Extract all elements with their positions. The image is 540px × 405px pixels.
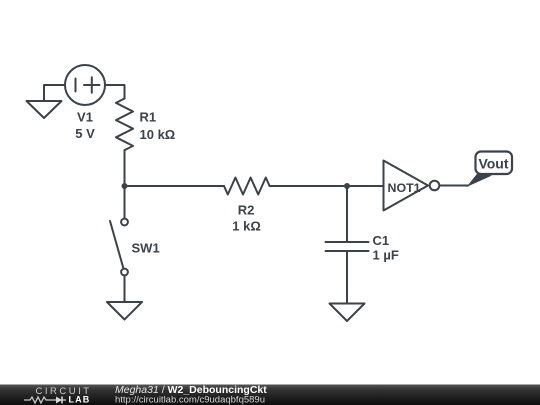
svg-text:R2: R2 xyxy=(238,203,255,218)
switch SW1 xyxy=(110,219,128,276)
wire (R2 right to node B) xyxy=(270,185,347,187)
Vout flag body xyxy=(476,152,513,175)
NOT1 output bubble xyxy=(430,181,440,191)
wire (C1 bottom plate to ground) xyxy=(346,251,348,304)
wire (V1 plus terminal to R1 top) xyxy=(105,85,125,99)
svg-text:NOT1: NOT1 xyxy=(388,181,421,195)
svg-text:Vout: Vout xyxy=(478,156,508,172)
svg-text:C1: C1 xyxy=(373,233,390,248)
ground (below SW1) xyxy=(107,302,142,320)
svg-text:LAB: LAB xyxy=(69,395,91,405)
ground (left of V1) xyxy=(27,101,62,118)
op-amp U1 NOT gate NOT1 triangle xyxy=(384,161,429,211)
svg-text:V1: V1 xyxy=(77,110,93,125)
svg-text:SW1: SW1 xyxy=(132,241,160,256)
wire (NOT1 output to Vout flag) xyxy=(440,185,469,187)
capacitor C1 xyxy=(326,242,369,251)
svg-text:R1: R1 xyxy=(140,110,157,125)
wire (V1 minus terminal to ground) xyxy=(44,85,65,101)
svg-text:1 kΩ: 1 kΩ xyxy=(232,219,261,234)
resistor R2 xyxy=(224,178,270,195)
CircuitLab logo schematic squiggle (resistor + diode) xyxy=(24,397,66,403)
svg-text:http://circuitlab.com/c9udaqbf: http://circuitlab.com/c9udaqbfq589u xyxy=(115,395,265,405)
node B junction xyxy=(344,183,350,189)
voltage source V1 xyxy=(65,65,105,105)
Vout flag tail xyxy=(467,173,493,188)
wire (node A to SW1 top terminal) xyxy=(124,186,126,219)
node A junction xyxy=(122,183,128,189)
wire (R1 bottom to node A) xyxy=(124,150,126,186)
resistor R1 xyxy=(116,99,133,151)
svg-text:1 µF: 1 µF xyxy=(373,248,399,263)
wire (node B to NOT1 input) xyxy=(347,185,384,187)
ground (below C1) xyxy=(330,304,365,322)
footer bar xyxy=(0,385,540,405)
wire (node A to R2 left) xyxy=(125,185,225,187)
svg-text:5 V: 5 V xyxy=(75,126,95,141)
wire (SW1 bottom to ground) xyxy=(124,276,126,303)
wire (node B down to C1 top plate) xyxy=(346,186,348,242)
svg-text:10 kΩ: 10 kΩ xyxy=(140,127,176,142)
